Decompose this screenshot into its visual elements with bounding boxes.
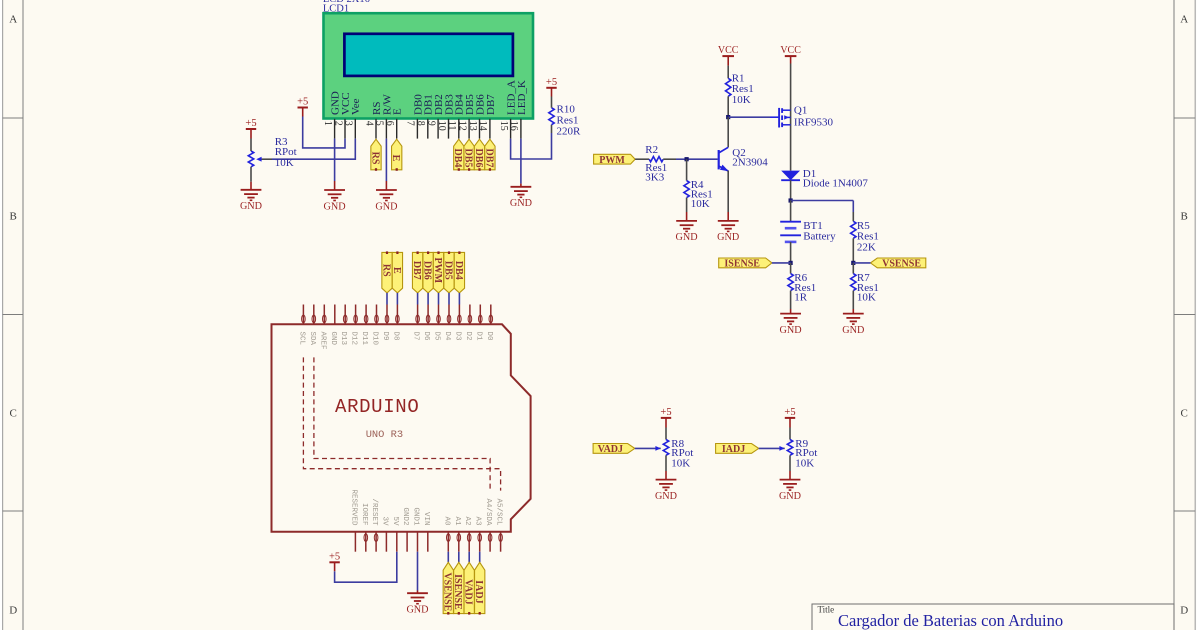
svg-text:D13: D13 [339, 332, 347, 346]
svg-text:GND: GND [780, 325, 802, 336]
svg-text:1R: 1R [794, 292, 808, 304]
svg-text:GND: GND [240, 201, 262, 212]
svg-text:VCC: VCC [718, 45, 739, 56]
svg-text:15: 15 [498, 121, 509, 131]
svg-text:VSENSE: VSENSE [882, 259, 921, 270]
svg-text:22K: 22K [857, 241, 876, 253]
svg-text:IADJ: IADJ [473, 580, 484, 603]
svg-text:10K: 10K [857, 292, 876, 304]
svg-text:C: C [1181, 408, 1188, 420]
svg-text:DB5: DB5 [442, 261, 453, 280]
svg-text:5V: 5V [391, 516, 399, 526]
svg-text:GND: GND [717, 232, 739, 243]
svg-text:A5/SCL: A5/SCL [495, 498, 503, 526]
svg-text:GND: GND [676, 232, 698, 243]
svg-text:Cargador de Baterias con Ardui: Cargador de Baterias con Arduino [838, 611, 1063, 630]
svg-text:DB4: DB4 [452, 149, 463, 168]
svg-text:+5: +5 [329, 552, 340, 563]
svg-text:D9: D9 [381, 332, 389, 341]
svg-text:10K: 10K [732, 94, 751, 106]
svg-text:RS: RS [369, 152, 380, 165]
svg-text:14: 14 [477, 121, 488, 131]
svg-text:VSENSE: VSENSE [442, 572, 453, 611]
svg-text:D3: D3 [453, 332, 461, 342]
svg-text:Q1: Q1 [794, 105, 807, 117]
svg-text:3V: 3V [380, 516, 388, 526]
svg-text:VADJ: VADJ [463, 579, 474, 604]
svg-text:DB5: DB5 [463, 149, 474, 168]
svg-text:4: 4 [363, 121, 374, 126]
svg-text:10K: 10K [275, 157, 294, 169]
svg-text:1: 1 [322, 121, 333, 126]
svg-text:D11: D11 [360, 332, 368, 346]
svg-text:IRF9530: IRF9530 [794, 117, 834, 129]
svg-text:AREF: AREF [318, 332, 326, 350]
svg-text:ARDUINO: ARDUINO [335, 396, 419, 418]
svg-text:IADJ: IADJ [722, 444, 745, 455]
svg-text:PWM: PWM [599, 155, 625, 166]
svg-text:8: 8 [415, 121, 426, 126]
svg-text:+5: +5 [297, 97, 308, 108]
svg-text:LED_K: LED_K [516, 80, 528, 115]
svg-text:GND: GND [510, 198, 532, 209]
svg-text:A1: A1 [453, 516, 461, 526]
svg-text:10K: 10K [691, 198, 710, 210]
svg-text:+5: +5 [245, 118, 256, 129]
svg-text:GND2: GND2 [401, 507, 409, 525]
svg-text:9: 9 [425, 121, 436, 126]
svg-text:GND: GND [842, 325, 864, 336]
svg-text:RS: RS [380, 264, 391, 277]
svg-text:GND: GND [655, 491, 677, 502]
svg-text:5: 5 [374, 121, 385, 126]
svg-text:Vee: Vee [350, 98, 362, 115]
svg-text:10K: 10K [671, 458, 690, 470]
svg-text:D7: D7 [412, 332, 420, 341]
svg-text:2: 2 [332, 121, 343, 126]
svg-text:11: 11 [446, 121, 457, 131]
svg-text:E: E [390, 155, 401, 162]
svg-text:D4: D4 [443, 332, 451, 342]
svg-text:GND: GND [329, 332, 337, 346]
svg-text:DB7: DB7 [485, 94, 497, 115]
svg-text:PWM: PWM [432, 258, 443, 284]
svg-text:220R: 220R [557, 125, 582, 137]
svg-text:A: A [9, 14, 17, 26]
svg-text:+5: +5 [546, 77, 557, 88]
svg-text:GND1: GND1 [412, 507, 420, 526]
svg-text:E: E [391, 267, 402, 274]
svg-text:RESERVED: RESERVED [349, 489, 357, 526]
svg-text:VADJ: VADJ [598, 444, 623, 455]
svg-text:D0: D0 [485, 332, 493, 342]
svg-text:A0: A0 [442, 516, 450, 526]
svg-text:12: 12 [456, 121, 467, 131]
svg-text:E: E [392, 108, 404, 115]
svg-text:GND: GND [406, 605, 428, 616]
svg-text:A4/SDA: A4/SDA [484, 498, 492, 526]
svg-text:13: 13 [467, 121, 478, 131]
svg-text:/RESET: /RESET [370, 498, 378, 526]
svg-text:7: 7 [405, 121, 416, 126]
svg-text:D6: D6 [422, 332, 430, 342]
svg-text:DB4: DB4 [453, 261, 464, 280]
svg-text:DB7: DB7 [483, 149, 494, 168]
svg-text:GND: GND [779, 491, 801, 502]
svg-text:10: 10 [436, 121, 447, 131]
svg-text:D5: D5 [433, 332, 441, 342]
svg-text:VIN: VIN [422, 512, 430, 526]
svg-text:SCL: SCL [297, 332, 305, 346]
svg-text:ISENSE: ISENSE [452, 574, 463, 610]
svg-text:+5: +5 [784, 407, 795, 418]
svg-text:Diode 1N4007: Diode 1N4007 [803, 178, 869, 190]
svg-text:UNO R3: UNO R3 [366, 429, 403, 441]
svg-text:D2: D2 [464, 332, 472, 341]
svg-text:16: 16 [508, 121, 519, 131]
svg-text:Title: Title [818, 604, 835, 614]
svg-text:+5: +5 [660, 407, 671, 418]
svg-text:D8: D8 [391, 332, 399, 341]
svg-text:DB6: DB6 [422, 261, 433, 280]
svg-text:GND: GND [375, 201, 397, 212]
svg-text:A2: A2 [463, 516, 471, 525]
svg-text:GND: GND [324, 201, 346, 212]
svg-text:B: B [1181, 211, 1188, 223]
svg-text:C: C [10, 408, 17, 420]
svg-text:D10: D10 [371, 332, 379, 346]
svg-text:A3: A3 [474, 516, 482, 526]
svg-text:DB7: DB7 [411, 261, 422, 280]
svg-text:B: B [10, 211, 17, 223]
svg-text:Battery: Battery [803, 231, 836, 243]
svg-text:DB6: DB6 [473, 149, 484, 168]
svg-text:R2: R2 [645, 144, 658, 156]
svg-text:3: 3 [343, 121, 354, 126]
svg-text:10K: 10K [795, 458, 814, 470]
svg-text:D1: D1 [474, 332, 482, 342]
svg-text:IOREF: IOREF [360, 503, 368, 526]
svg-text:2N3904: 2N3904 [732, 156, 768, 168]
svg-text:D: D [1180, 605, 1188, 617]
svg-text:A: A [1180, 14, 1188, 26]
svg-text:SDA: SDA [308, 332, 316, 346]
svg-text:VCC: VCC [780, 45, 801, 56]
svg-text:D12: D12 [350, 332, 358, 346]
svg-text:ISENSE: ISENSE [724, 259, 760, 270]
svg-text:3K3: 3K3 [645, 171, 664, 183]
svg-text:D: D [9, 605, 17, 617]
svg-text:6: 6 [384, 121, 395, 126]
